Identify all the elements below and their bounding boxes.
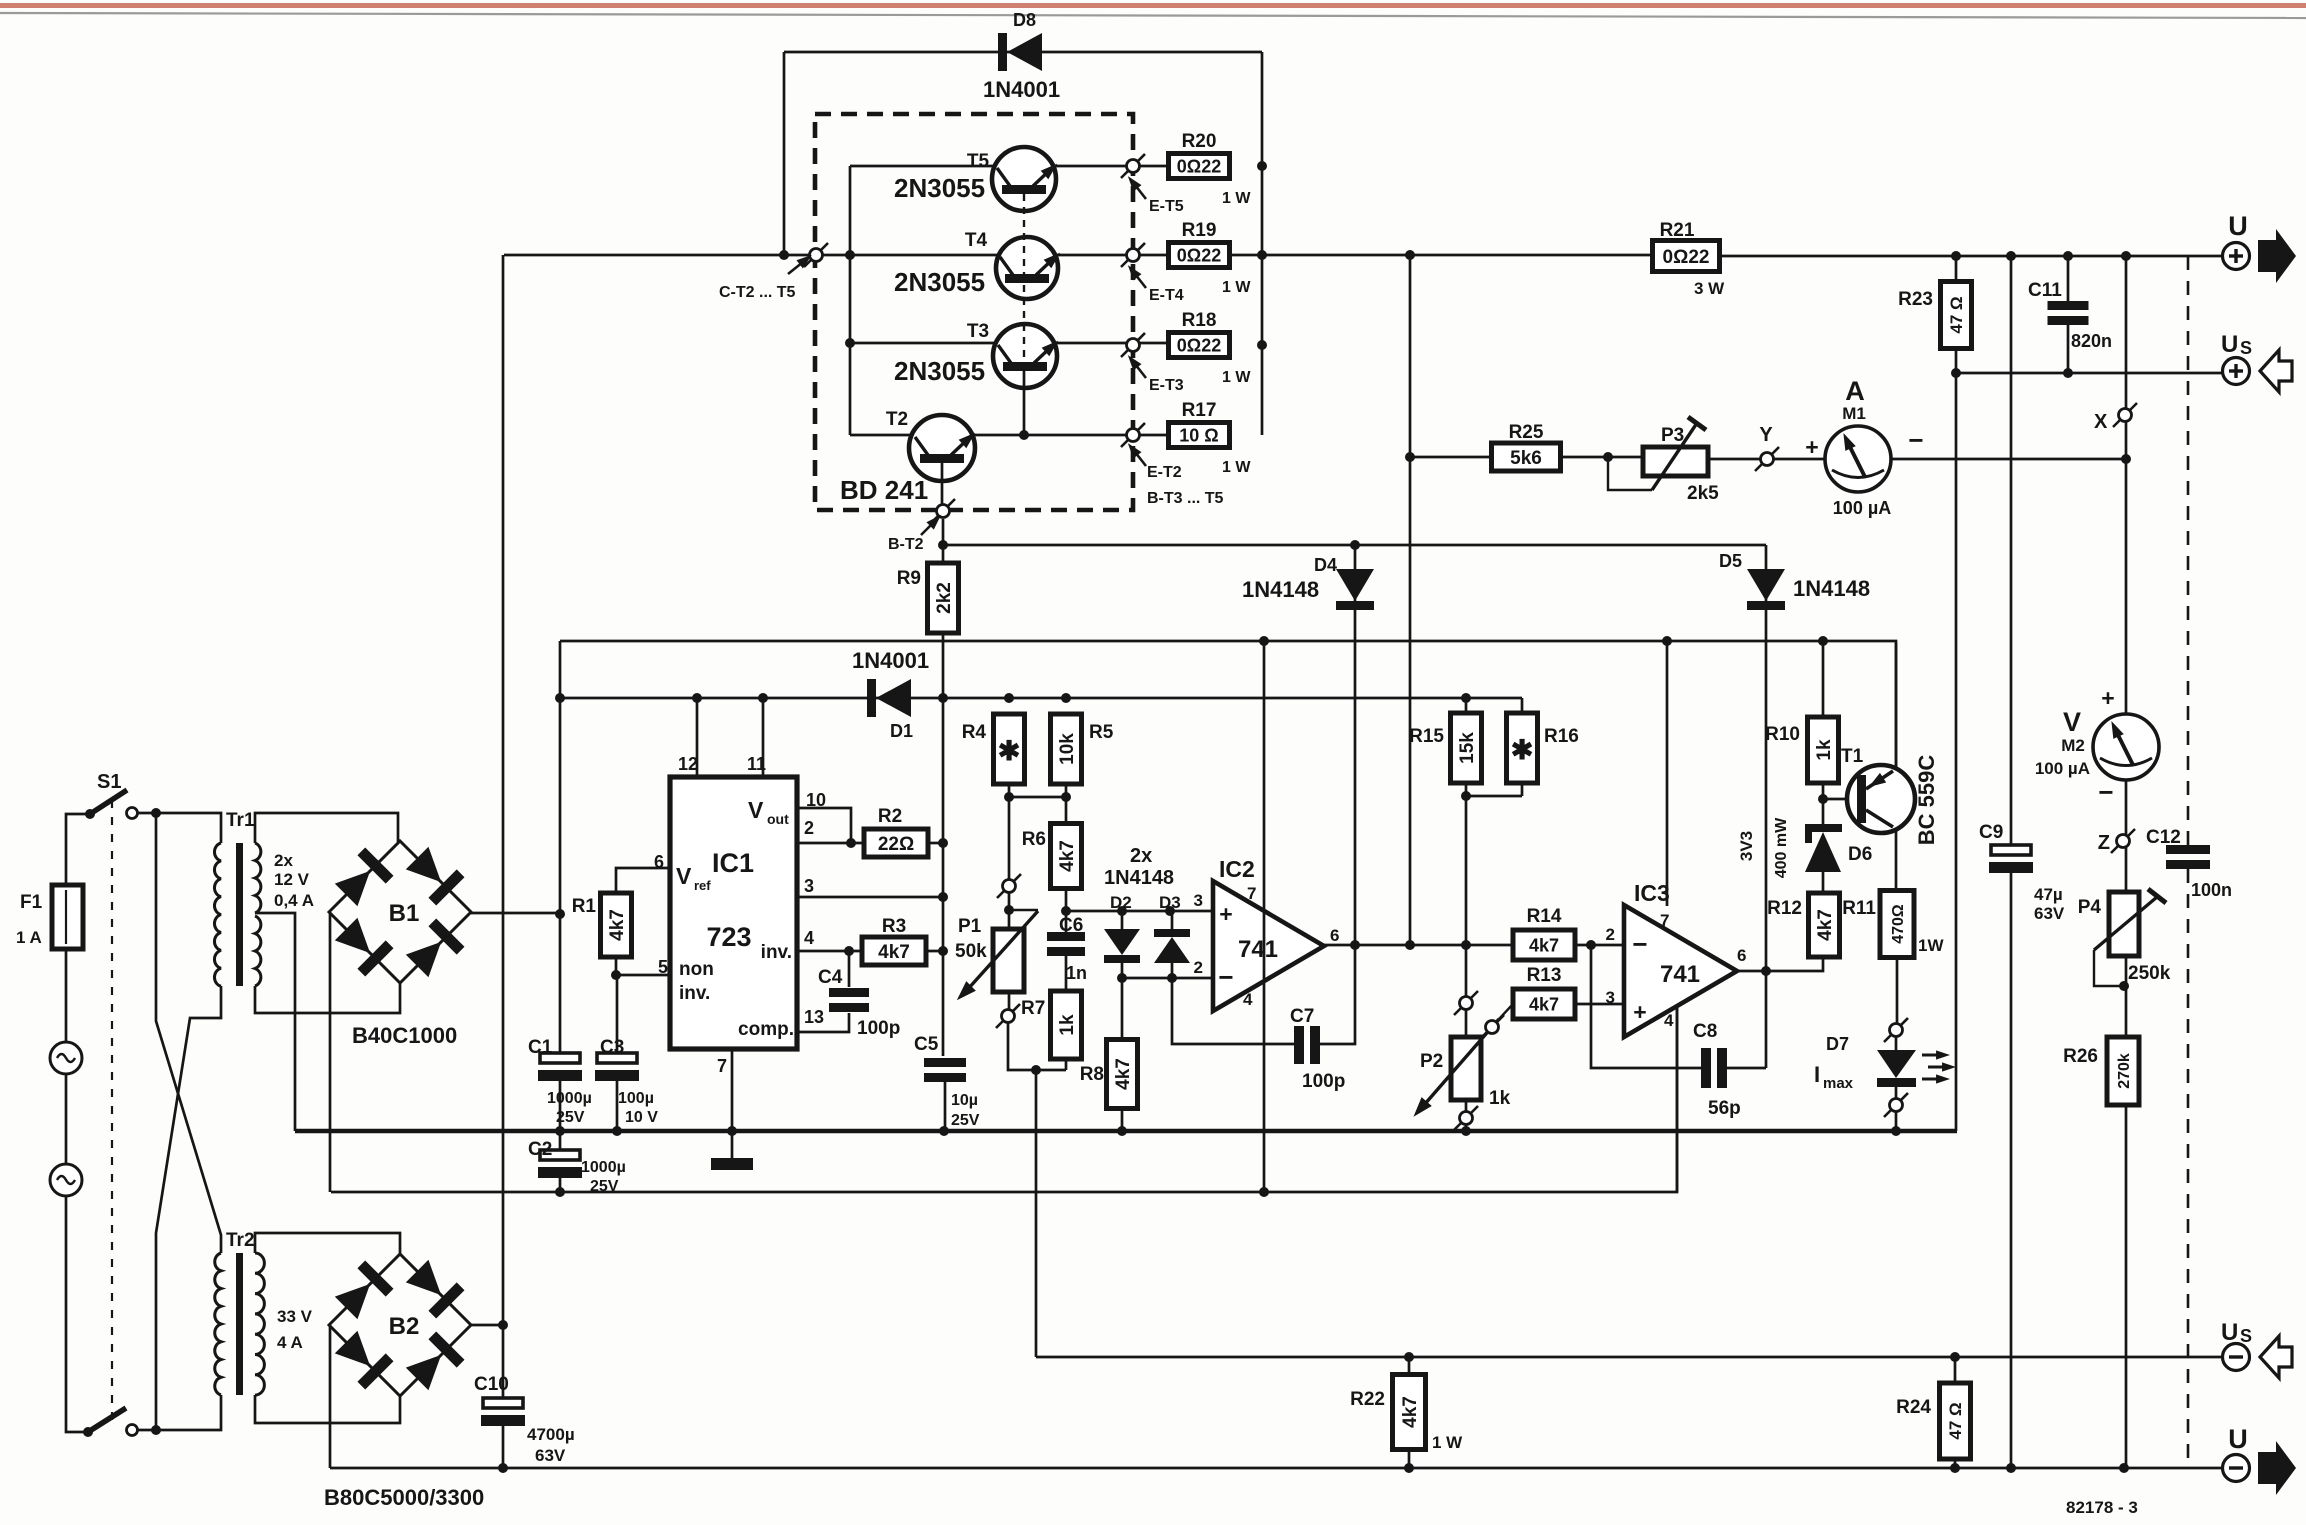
IC1 pin 5 wire — [616, 974, 670, 977]
svg-text:25V: 25V — [590, 1178, 619, 1195]
svg-text:ref: ref — [694, 878, 711, 893]
svg-text:10k: 10k — [1057, 733, 1078, 765]
dashed gang link of S1 — [111, 800, 113, 1420]
T5 internals — [1002, 185, 1046, 194]
svg-text:1 W: 1 W — [1222, 369, 1251, 386]
capacitor C6 — [1047, 932, 1085, 941]
resistor R24 — [1940, 1383, 1971, 1459]
wire between AC sources — [65, 1074, 68, 1164]
wire: IC3 pin 4 drop — [1676, 1005, 1679, 1192]
svg-text:E-T5: E-T5 — [1149, 198, 1184, 215]
svg-text:0Ω22: 0Ω22 — [1177, 245, 1221, 265]
svg-text:2k5: 2k5 — [1687, 483, 1719, 504]
wire: main collector riser (B2+ up to rail) — [502, 255, 505, 1325]
resistor R19 — [1169, 243, 1230, 268]
svg-text:R23: R23 — [1898, 289, 1933, 310]
T2 internals — [920, 454, 964, 463]
svg-text:R21: R21 — [1660, 220, 1695, 241]
resistor R23 — [1941, 282, 1972, 349]
wire: x=1410 vertical (rail to output node) — [1409, 255, 1412, 945]
svg-text:C8: C8 — [1693, 1021, 1717, 1042]
svg-text:R9: R9 — [897, 568, 921, 589]
fuse F1 — [65, 885, 68, 949]
wire: IC3 output — [1737, 957, 1823, 971]
wire: pin2 to C7 — [1172, 978, 1297, 1044]
svg-text:V: V — [676, 863, 692, 889]
terminal U- — [2223, 1455, 2250, 1482]
svg-text:R16: R16 — [1544, 726, 1579, 747]
IC1 pin 4 wire + R3 — [797, 950, 862, 953]
svg-text:E-T4: E-T4 — [1149, 287, 1184, 304]
svg-text:3: 3 — [1194, 891, 1203, 910]
transistor T3 2N3055 — [993, 324, 1057, 388]
svg-text:R4: R4 — [962, 722, 987, 743]
capacitor C1 — [540, 1053, 580, 1063]
svg-text:10µ: 10µ — [951, 1092, 978, 1109]
svg-text:1 W: 1 W — [1432, 1433, 1463, 1452]
wire: Y to M1 — [1774, 458, 1825, 461]
resistor R24 47R — [1954, 1357, 1957, 1468]
svg-text:25V: 25V — [951, 1112, 980, 1129]
svg-text:4 A: 4 A — [277, 1333, 303, 1352]
transistor T4 2N3055 — [996, 237, 1058, 299]
svg-text:✱: ✱ — [1511, 735, 1534, 765]
node: P2 top pin — [1454, 991, 1478, 1015]
IC IC1 723 regulator — [670, 777, 797, 1049]
node E-T2 / B-T3...T5 — [1121, 423, 1145, 447]
svg-text:7: 7 — [1247, 884, 1256, 903]
capacitor C10 4700u — [502, 1325, 505, 1398]
svg-text:−: − — [1908, 425, 1923, 455]
transistor T5 2N3055 — [992, 147, 1056, 211]
svg-text:IC2: IC2 — [1219, 856, 1255, 882]
svg-text:741: 741 — [1660, 961, 1700, 988]
svg-text:Y: Y — [1759, 424, 1773, 446]
svg-text:+: + — [1805, 434, 1818, 460]
wire: B2 plus to main collector rail riser — [470, 1324, 503, 1327]
resistor R4 — [994, 714, 1025, 784]
svg-text:C12: C12 — [2146, 827, 2181, 848]
resistor R1 — [601, 893, 632, 957]
AC mains source (upper) — [50, 1042, 82, 1074]
capacitor C4 — [829, 988, 869, 997]
svg-text:max: max — [1823, 1075, 1854, 1092]
svg-text:R12: R12 — [1767, 898, 1802, 919]
svg-text:1 W: 1 W — [1222, 279, 1251, 296]
svg-text:D6: D6 — [1848, 844, 1872, 865]
node: P1 top pin — [997, 874, 1021, 898]
svg-text:+: + — [1633, 999, 1646, 1025]
svg-text:6: 6 — [1737, 946, 1746, 965]
svg-text:C10: C10 — [474, 1374, 509, 1395]
resistor R10 1k — [1822, 641, 1825, 717]
wire: output rail right part — [1720, 255, 2222, 258]
IC1 pin 7 wire + ground bar — [731, 1049, 734, 1160]
svg-text:R7: R7 — [1021, 998, 1045, 1019]
T2 base wire to B-T2 pin — [941, 463, 944, 505]
svg-text:C11: C11 — [2028, 280, 2062, 301]
svg-text:50k: 50k — [955, 941, 987, 962]
resistor R12 — [1809, 893, 1840, 957]
resistor R22 — [1393, 1375, 1426, 1450]
svg-text:2: 2 — [804, 818, 814, 838]
svg-text:1k: 1k — [1814, 739, 1835, 761]
svg-text:U: U — [2221, 331, 2238, 358]
svg-text:C1: C1 — [528, 1037, 553, 1058]
LED D7 Imax — [1896, 957, 1899, 1023]
svg-text:B40C1000: B40C1000 — [352, 1023, 457, 1048]
svg-text:−: − — [1632, 929, 1647, 959]
svg-text:B-T3 ... T5: B-T3 ... T5 — [1147, 490, 1224, 507]
svg-text:82178 - 3: 82178 - 3 — [2066, 1498, 2138, 1517]
svg-text:2N3055: 2N3055 — [894, 267, 985, 297]
svg-text:U: U — [2228, 1424, 2248, 1454]
node: P1 bottom pin — [1008, 992, 1011, 1009]
svg-text:4k7: 4k7 — [1529, 935, 1559, 955]
capacitor C4 100p — [848, 951, 851, 987]
wire: S1 upper contact to Tr1 primary — [138, 813, 221, 843]
svg-text:D7: D7 — [1826, 1034, 1849, 1054]
svg-text:1N4001: 1N4001 — [852, 648, 929, 673]
wire: Us- sense line — [1036, 1356, 2222, 1359]
svg-text:4k7: 4k7 — [878, 942, 910, 963]
terminal Us- — [2223, 1344, 2250, 1371]
svg-text:B80C5000/3300: B80C5000/3300 — [324, 1485, 484, 1510]
wire: Us+ sense line — [1956, 372, 2222, 375]
svg-text:T3: T3 — [967, 321, 989, 342]
svg-text:C6: C6 — [1059, 915, 1083, 936]
svg-text:C2: C2 — [528, 1139, 552, 1160]
wire: T2 emitter to R17 — [972, 434, 1169, 437]
resistor R25 — [1492, 443, 1561, 471]
svg-text:470Ω: 470Ω — [1890, 904, 1907, 944]
svg-text:T1: T1 — [1841, 746, 1864, 767]
svg-text:X: X — [2094, 411, 2108, 433]
resistor R20 — [1169, 154, 1230, 179]
terminal U+ — [2223, 243, 2250, 270]
svg-text:D2: D2 — [1110, 893, 1132, 912]
svg-text:V: V — [2063, 707, 2081, 737]
svg-text:2N3055: 2N3055 — [894, 173, 985, 203]
svg-text:56p: 56p — [1708, 1098, 1741, 1119]
svg-text:D4: D4 — [1314, 555, 1337, 575]
svg-text:R15: R15 — [1409, 726, 1444, 747]
wire: collector tie bar — [849, 166, 852, 435]
svg-text:400 mW: 400 mW — [1773, 817, 1790, 878]
svg-text:1k: 1k — [1489, 1088, 1511, 1109]
svg-text:T4: T4 — [965, 230, 988, 251]
zener D6 3V3 — [1805, 824, 1842, 832]
terminal Us+ — [2223, 358, 2250, 385]
svg-text:B2: B2 — [389, 1313, 420, 1340]
capacitor C2 1000u — [559, 1131, 562, 1150]
svg-text:R13: R13 — [1527, 965, 1562, 986]
resistor R16 (select) — [1466, 698, 1522, 796]
IC1 pin 10/2 wires — [797, 808, 851, 843]
svg-text:P1: P1 — [958, 916, 982, 937]
wire: wiper link to R13 — [1499, 1004, 1513, 1019]
svg-text:IC3: IC3 — [1634, 880, 1670, 906]
svg-text:BD 241: BD 241 — [840, 475, 928, 505]
svg-text:R1: R1 — [572, 896, 597, 917]
wire: T3 emitter to R18 — [1054, 342, 1169, 345]
svg-text:1k: 1k — [1057, 1014, 1078, 1036]
svg-text:P3: P3 — [1661, 425, 1684, 446]
svg-text:2N3055: 2N3055 — [894, 356, 985, 386]
switch S1 (lower pole) — [88, 1408, 126, 1432]
IC1 pin 11 wire — [762, 698, 765, 777]
svg-text:1N4148: 1N4148 — [1104, 867, 1174, 889]
wire: AC source to S1 lower pole — [66, 1196, 88, 1432]
svg-text:4700µ: 4700µ — [527, 1425, 575, 1444]
svg-text:S: S — [2240, 338, 2252, 358]
svg-text:T2: T2 — [886, 409, 908, 430]
svg-text:✱: ✱ — [998, 736, 1021, 766]
diode D8 — [998, 33, 1007, 71]
svg-text:12 V: 12 V — [274, 870, 310, 889]
diode D3 1N4148 — [1171, 911, 1174, 978]
svg-text:B1: B1 — [389, 900, 420, 927]
svg-text:47 Ω: 47 Ω — [1946, 1402, 1965, 1439]
capacitor C11 — [2048, 301, 2089, 310]
negative aux rail — [331, 1003, 1677, 1192]
svg-text:100n: 100n — [2191, 880, 2232, 900]
capacitor C11 820n — [2067, 256, 2070, 301]
node B-T2 — [931, 499, 955, 523]
svg-text:0Ω22: 0Ω22 — [1663, 247, 1710, 268]
resistor R14 — [1513, 930, 1575, 960]
svg-text:R6: R6 — [1022, 829, 1046, 850]
node: P2 wiper pin — [1480, 1015, 1504, 1039]
svg-text:V: V — [748, 797, 764, 823]
resistor R13 — [1513, 989, 1575, 1019]
svg-text:10 Ω: 10 Ω — [1179, 425, 1218, 445]
svg-text:723: 723 — [706, 922, 751, 952]
transistor T2 BD241 — [909, 415, 975, 481]
svg-text:D3: D3 — [1159, 893, 1181, 912]
svg-text:R8: R8 — [1080, 1064, 1104, 1085]
svg-text:Z: Z — [2098, 832, 2110, 854]
wire: sense drop to Us- line — [1035, 1070, 1038, 1357]
wire: U- output rail — [330, 1467, 2222, 1470]
wire: T2 collector — [850, 434, 912, 437]
svg-text:BC 559C: BC 559C — [1914, 755, 1939, 846]
svg-text:1 W: 1 W — [1222, 459, 1251, 476]
svg-text:4k7: 4k7 — [1815, 909, 1836, 941]
svg-text:6: 6 — [1330, 926, 1339, 945]
wire: M1 to output rail branch — [1891, 458, 2126, 461]
wire: IC2 output to R14 — [1324, 944, 1513, 947]
svg-text:D5: D5 — [1719, 551, 1742, 571]
svg-text:R18: R18 — [1182, 310, 1217, 331]
resistor R25 5k6 — [1410, 456, 1492, 459]
svg-text:100p: 100p — [1302, 1071, 1345, 1092]
svg-text:1000µ: 1000µ — [581, 1159, 626, 1176]
resistor R3 — [862, 937, 926, 965]
svg-text:22Ω: 22Ω — [878, 834, 914, 855]
svg-text:R14: R14 — [1527, 906, 1562, 927]
svg-text:M1: M1 — [1842, 404, 1866, 423]
svg-text:R3: R3 — [882, 916, 906, 937]
capacitor C5 — [924, 1058, 966, 1067]
LED light arrows — [1922, 1054, 1938, 1057]
svg-text:10 V: 10 V — [625, 1109, 658, 1126]
0V sense bus (thick) — [295, 1129, 1957, 1133]
wire: B1+/D1 line (y=698) — [560, 697, 1522, 700]
svg-text:C4: C4 — [818, 967, 843, 988]
wire: IC2 pin2 line — [1122, 977, 1213, 980]
capacitor C7 100p — [1294, 1026, 1304, 1064]
capacitor C12 — [2166, 845, 2210, 854]
resistor R17 — [1169, 423, 1230, 448]
svg-text:250k: 250k — [2128, 963, 2171, 984]
svg-text:15k: 15k — [1457, 732, 1478, 764]
capacitor C10 — [483, 1398, 523, 1408]
svg-text:100µ: 100µ — [618, 1090, 654, 1107]
wire: T5 emitter to R20 — [1052, 165, 1169, 168]
svg-text:100 µA: 100 µA — [2035, 759, 2090, 778]
svg-text:out: out — [767, 811, 789, 827]
wire: T1 base — [1823, 798, 1852, 801]
resistor R7 — [1051, 991, 1082, 1059]
svg-text:R5: R5 — [1089, 722, 1114, 743]
capacitor C8 56p — [1591, 945, 1701, 1068]
wire: T3 collector — [850, 342, 996, 345]
wire: Tr2 secondary top to B2 — [255, 1233, 400, 1255]
wire: IC2 pin3 line — [1066, 910, 1213, 913]
svg-text:2x: 2x — [274, 851, 293, 870]
wire: R4/R5 bottoms join — [1009, 784, 1066, 797]
wire: P3 to Y — [1708, 458, 1760, 461]
diode D5 — [1747, 569, 1785, 601]
wire: +aux top bus (y=641) — [560, 641, 1896, 769]
svg-text:4k7: 4k7 — [1529, 994, 1559, 1014]
meter M1 — [1825, 426, 1891, 492]
resistor R11 — [1880, 891, 1914, 958]
potentiometer P3 2k5 — [1643, 447, 1708, 476]
resistor R9 — [928, 563, 959, 633]
svg-text:−: − — [2098, 777, 2113, 807]
svg-text:1N4148: 1N4148 — [1242, 577, 1319, 602]
svg-text:4k7: 4k7 — [1057, 840, 1078, 872]
potentiometer P4 250k — [2109, 892, 2139, 956]
svg-text:0,4 A: 0,4 A — [274, 891, 314, 910]
svg-text:3: 3 — [804, 876, 814, 896]
svg-text:S1: S1 — [97, 771, 121, 793]
svg-text:R22: R22 — [1350, 1389, 1385, 1410]
wire: meter/X branch vertical — [2125, 256, 2128, 1468]
svg-text:F1: F1 — [20, 892, 43, 913]
svg-text:4: 4 — [804, 928, 814, 948]
wire: R23 bottom / 0V bus riser — [1955, 349, 1958, 1131]
svg-text:63V: 63V — [535, 1446, 566, 1465]
AC mains source (lower) — [50, 1164, 82, 1196]
wire: B1 minus to negative aux rail — [329, 912, 332, 1192]
resistor R15 — [1451, 713, 1482, 783]
node Z — [2111, 829, 2135, 853]
wire: Tr1 centre tap to 0V bus — [255, 913, 295, 1131]
T3 internals — [1003, 362, 1047, 371]
svg-text:+: + — [1219, 901, 1232, 927]
svg-text:P2: P2 — [1420, 1051, 1443, 1072]
capacitor C3 100u — [616, 975, 619, 1053]
svg-text:47 Ω: 47 Ω — [1947, 296, 1966, 333]
svg-text:4: 4 — [1664, 1011, 1674, 1030]
wire: R15/16 down to P2 — [1465, 796, 1468, 1003]
node E-T4 — [1121, 243, 1145, 267]
wire: +aux rail riser at x=560 — [559, 641, 562, 1053]
svg-text:D8: D8 — [1013, 10, 1036, 30]
svg-text:C3: C3 — [600, 1037, 624, 1058]
svg-text:47µ: 47µ — [2034, 885, 2063, 904]
capacitor C9 47u — [2010, 256, 2013, 845]
svg-text:4: 4 — [1243, 990, 1253, 1009]
wire: P1/R7 foot joining — [1008, 1023, 1066, 1070]
svg-text:741: 741 — [1238, 936, 1278, 963]
wire: main collector rail — [504, 254, 1653, 257]
resistor R8 4k7 — [1121, 978, 1124, 1131]
svg-text:C9: C9 — [1979, 822, 2003, 843]
base tie line through T3..T5 — [1023, 194, 1025, 362]
svg-text:IC1: IC1 — [712, 848, 754, 878]
svg-text:2: 2 — [1194, 958, 1203, 977]
svg-text:2x: 2x — [1130, 845, 1152, 867]
node E-T5 — [1121, 154, 1145, 178]
bridge rectifier B1 — [329, 841, 471, 983]
svg-text:R19: R19 — [1182, 220, 1217, 241]
transistor T1 BC559C — [1895, 643, 1898, 890]
svg-text:−: − — [1218, 962, 1233, 992]
svg-text:R20: R20 — [1182, 131, 1217, 152]
svg-text:820n: 820n — [2071, 331, 2112, 351]
svg-text:1 W: 1 W — [1222, 190, 1251, 207]
diode D5 1N4148 — [1765, 545, 1768, 971]
svg-text:0Ω22: 0Ω22 — [1177, 156, 1221, 176]
svg-text:11: 11 — [747, 754, 766, 774]
svg-text:U: U — [2228, 211, 2248, 241]
svg-text:1N4148: 1N4148 — [1793, 576, 1870, 601]
svg-text:2: 2 — [1606, 925, 1615, 944]
wire: Tr1 secondary top to B1 — [255, 813, 398, 843]
svg-text:3: 3 — [1606, 988, 1615, 1007]
potentiometer P2 1k — [1465, 1010, 1468, 1037]
capacitor C9 — [1991, 845, 2031, 855]
svg-text:inv.: inv. — [679, 983, 710, 1004]
svg-text:R10: R10 — [1765, 724, 1800, 745]
svg-text:U: U — [2221, 1319, 2238, 1346]
diode D2 1N4148 — [1121, 911, 1124, 978]
diode D4 — [1336, 569, 1374, 601]
svg-text:1n: 1n — [1066, 963, 1087, 983]
wire: down to P1 — [1008, 797, 1011, 880]
svg-text:4k7: 4k7 — [1400, 1396, 1421, 1428]
wire: B1 plus to aux supply node — [470, 912, 560, 915]
wire: Tr2 secondary bottom to B2 — [255, 1395, 400, 1423]
svg-text:13: 13 — [804, 1007, 824, 1027]
svg-text:D1: D1 — [890, 721, 913, 741]
svg-text:A: A — [1845, 376, 1865, 406]
svg-text:1000µ: 1000µ — [547, 1090, 592, 1107]
wire: switched line crossing to Tr2 primary — [156, 813, 221, 1253]
dashed remote sense line + C12 — [2187, 256, 2190, 845]
wire: B2 minus down to U- rail — [329, 1325, 332, 1468]
wire: R13 to IC3 pin3 — [1575, 1003, 1624, 1006]
svg-text:comp.: comp. — [738, 1019, 794, 1040]
op-amp IC2 741 — [1213, 881, 1324, 1011]
capacitor C2 — [540, 1150, 580, 1160]
resistor R10 — [1808, 717, 1839, 783]
resistor R5 — [1051, 714, 1082, 784]
